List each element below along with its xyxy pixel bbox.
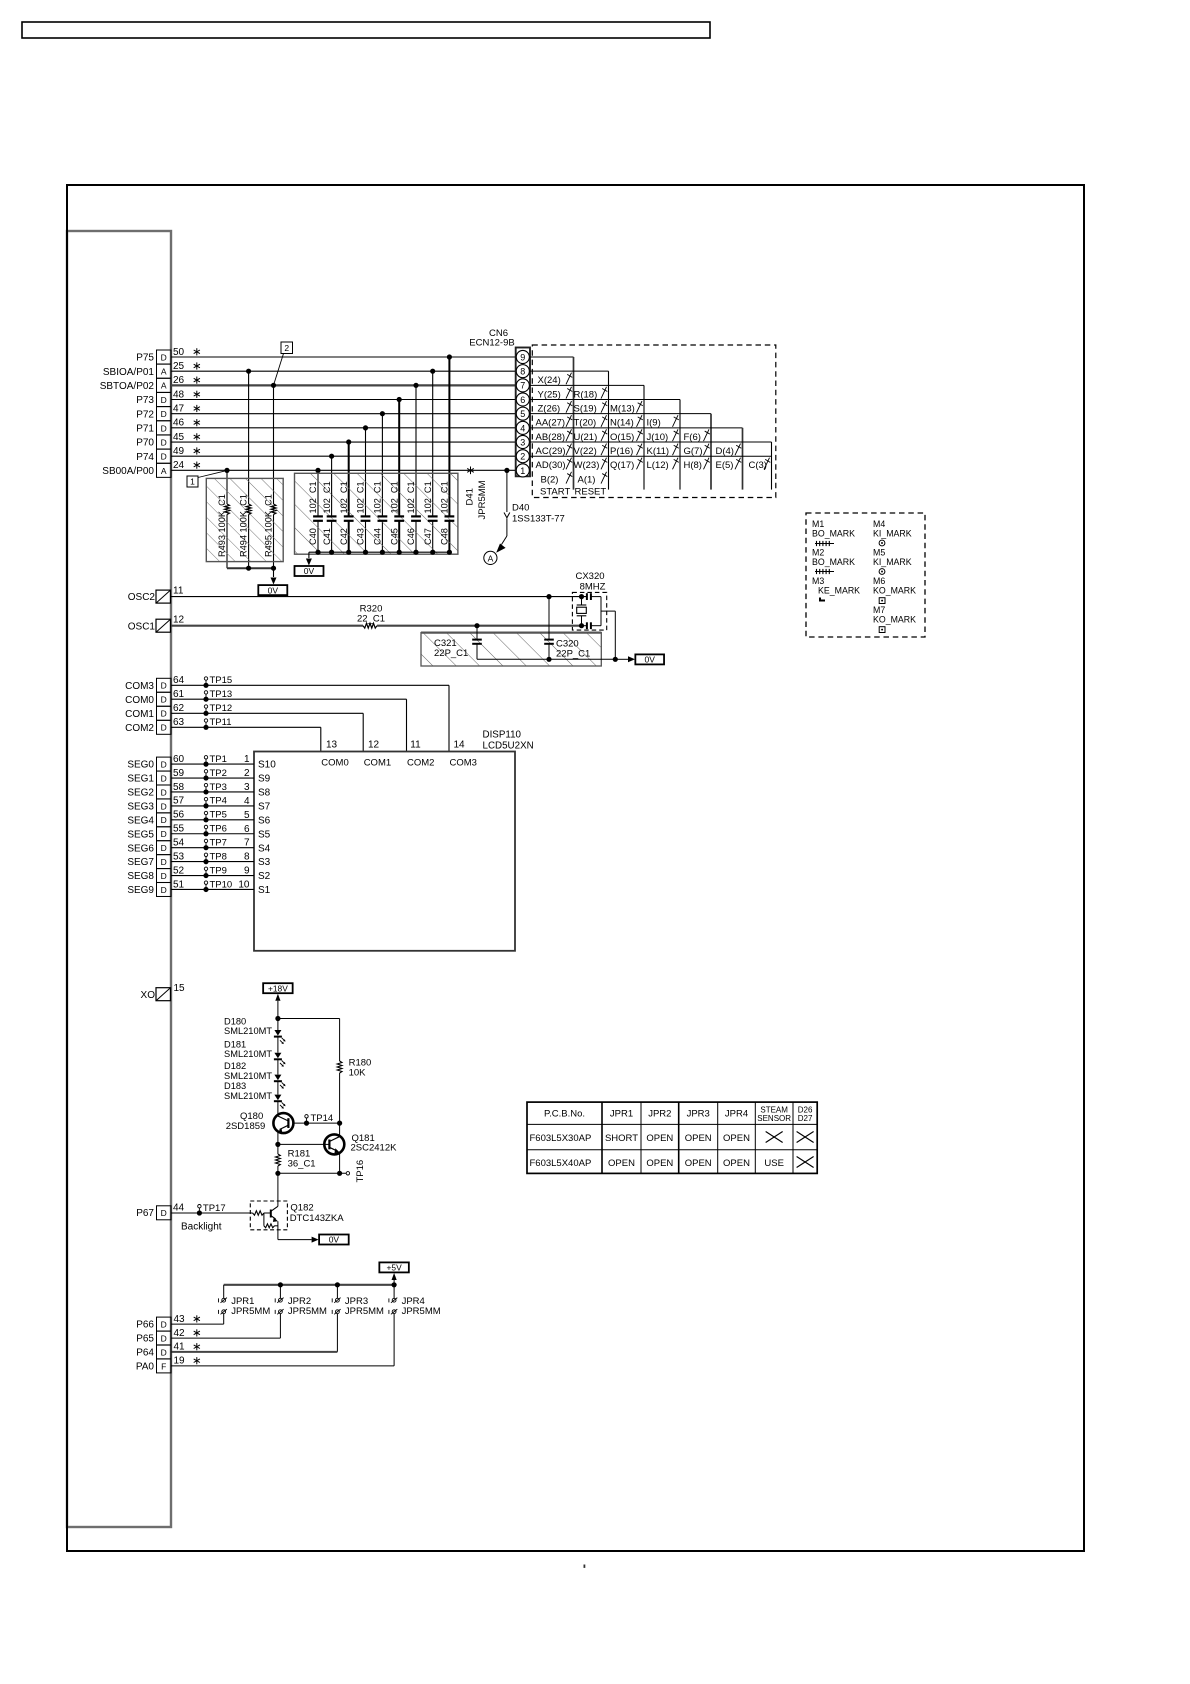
wire Q180 base to TP14	[293, 1122, 339, 1124]
svg-text:A: A	[488, 553, 494, 563]
svg-text:OPEN: OPEN	[646, 1158, 673, 1169]
svg-text:M3: M3	[812, 576, 824, 586]
svg-text:COM2: COM2	[125, 723, 154, 734]
svg-text:12: 12	[173, 615, 185, 626]
supply +5V	[379, 1262, 409, 1272]
node junction to CN6 pin1	[504, 468, 509, 473]
capacitor bank block C40-C48	[295, 473, 458, 554]
svg-text:OSC2: OSC2	[128, 592, 156, 603]
junction node on row P75 at x=449.4	[447, 354, 452, 359]
supply +18V	[263, 983, 293, 993]
svg-text:OPEN: OPEN	[685, 1133, 712, 1144]
svg-text:D: D	[161, 829, 167, 839]
svg-text:55: 55	[173, 824, 185, 835]
wire P74 row	[171, 455, 516, 457]
svg-text:R(18): R(18)	[574, 389, 598, 400]
svg-text:D: D	[161, 395, 167, 405]
svg-text:D180: D180	[224, 1017, 246, 1027]
svg-text:SEG2: SEG2	[127, 788, 154, 799]
resistor R180 10K	[337, 1061, 342, 1073]
svg-text:DTC143ZKA: DTC143ZKA	[290, 1213, 345, 1224]
svg-text:TP10: TP10	[210, 879, 233, 890]
svg-text:D: D	[161, 760, 167, 770]
svg-text:2: 2	[284, 343, 289, 353]
capacitor C43 102_C1	[361, 515, 371, 517]
test point TP7	[203, 845, 208, 850]
svg-text:D: D	[161, 815, 167, 825]
svg-text:SEG4: SEG4	[127, 815, 154, 826]
svg-text:BO_MARK: BO_MARK	[812, 529, 855, 539]
svg-text:D: D	[161, 423, 167, 433]
svg-text:SBIOA/P01: SBIOA/P01	[103, 367, 155, 378]
capacitor C46 102_C1	[411, 515, 421, 517]
svg-text:I(9): I(9)	[647, 418, 661, 429]
svg-text:U(21): U(21)	[574, 432, 598, 443]
svg-text:TP11: TP11	[210, 717, 232, 728]
CN6 pin 3	[516, 435, 529, 448]
svg-text:TP8: TP8	[210, 851, 227, 862]
svg-text:7: 7	[244, 838, 250, 849]
svg-text:TP14: TP14	[311, 1113, 334, 1124]
svg-text:D: D	[161, 773, 167, 783]
svg-text:P(16): P(16)	[610, 446, 633, 457]
wire SEG6 to LCD	[171, 847, 254, 849]
svg-text:TP2: TP2	[210, 768, 227, 779]
svg-text:D: D	[161, 857, 167, 867]
test point TP16	[346, 1172, 349, 1175]
wire matrix column 1	[573, 357, 575, 490]
svg-text:51: 51	[173, 879, 185, 890]
wire capacitor drop	[381, 414, 383, 517]
svg-text:AD(30): AD(30)	[536, 460, 566, 471]
svg-text:102_C1: 102_C1	[322, 481, 332, 513]
svg-text:52: 52	[173, 865, 185, 876]
svg-text:C40: C40	[308, 528, 318, 545]
svg-text:56: 56	[173, 810, 185, 821]
svg-text:D40: D40	[512, 503, 529, 514]
jumper JPR4 JPR5MM	[393, 1285, 395, 1298]
wire CN6 pin 9 to matrix column	[530, 356, 574, 358]
svg-text:45: 45	[173, 432, 185, 443]
svg-text:D: D	[161, 452, 167, 462]
svg-text:OPEN: OPEN	[608, 1158, 635, 1169]
svg-text:G(7): G(7)	[684, 446, 703, 457]
svg-text:JPR5MM: JPR5MM	[231, 1306, 270, 1317]
wire to 0V (resistor network)	[273, 568, 275, 577]
svg-text:OPEN: OPEN	[723, 1158, 750, 1169]
capacitor top of crystal	[586, 593, 588, 600]
svg-text:0V: 0V	[304, 566, 315, 576]
svg-text:USE: USE	[764, 1158, 784, 1169]
svg-text:42: 42	[174, 1328, 186, 1339]
junction node on row P74 at x=331.6	[329, 454, 334, 459]
resistor network block R493-R495	[206, 478, 283, 561]
transistor Q180 2SD1859	[273, 1113, 293, 1133]
svg-text:S2: S2	[258, 871, 271, 882]
svg-text:D181: D181	[224, 1039, 246, 1049]
svg-text:H(8): H(8)	[684, 460, 702, 471]
svg-text:D27: D27	[798, 1114, 813, 1123]
capacitor bottom of crystal	[586, 622, 588, 629]
junction node on row P72 at x=382.4	[380, 411, 385, 416]
wire CN6 pin 8 to matrix column	[530, 370, 609, 372]
wire capacitor drop	[415, 385, 417, 516]
svg-text:22P_C1: 22P_C1	[556, 649, 590, 660]
svg-text:M5: M5	[873, 548, 885, 558]
svg-text:TP7: TP7	[210, 837, 227, 848]
svg-text:10K: 10K	[349, 1068, 367, 1079]
svg-text:C46: C46	[406, 528, 416, 545]
wire P67 row	[171, 1212, 253, 1214]
svg-text:43: 43	[174, 1314, 186, 1325]
svg-text:3: 3	[244, 782, 250, 793]
svg-text:9: 9	[520, 352, 525, 362]
wire SEG0 to LCD	[171, 763, 254, 765]
test point TP14	[304, 1121, 309, 1126]
jumper JPR3 JPR5MM	[336, 1285, 338, 1298]
svg-text:D: D	[161, 437, 167, 447]
svg-text:M6: M6	[873, 576, 885, 586]
svg-text:102_C1: 102_C1	[389, 481, 399, 513]
junction node on row SB00A/P00 at x=227	[224, 468, 229, 473]
svg-text:2SC2412K: 2SC2412K	[351, 1143, 398, 1154]
callout 1	[187, 476, 198, 487]
svg-text:KO_MARK: KO_MARK	[873, 615, 916, 625]
callout 2	[281, 342, 293, 354]
svg-text:P.C.B.No.: P.C.B.No.	[544, 1109, 585, 1120]
svg-text:D: D	[161, 352, 167, 362]
svg-text:2SD1859: 2SD1859	[226, 1121, 266, 1132]
svg-text:24: 24	[173, 460, 185, 471]
capacitor C44 102_C1	[378, 515, 388, 517]
svg-text:M(13): M(13)	[610, 403, 635, 414]
svg-text:N(14): N(14)	[610, 418, 634, 429]
svg-text:SEG8: SEG8	[127, 871, 154, 882]
svg-text:TP1: TP1	[210, 754, 227, 765]
svg-text:LCD5U2XN: LCD5U2XN	[483, 741, 534, 752]
svg-text:P72: P72	[136, 409, 154, 420]
wire OSC1 row (bold)	[171, 625, 363, 627]
svg-text:2: 2	[244, 768, 250, 779]
svg-text:8: 8	[244, 852, 250, 863]
svg-text:COM3: COM3	[125, 681, 154, 692]
test point TP9	[203, 873, 208, 878]
svg-text:12: 12	[368, 740, 380, 751]
wire capacitor drop	[432, 371, 434, 516]
svg-text:F603L5X30AP: F603L5X30AP	[530, 1133, 592, 1144]
CN6 pin 4	[516, 421, 529, 434]
svg-text:COM0: COM0	[321, 758, 348, 769]
test point TP15	[203, 683, 208, 688]
svg-text:P67: P67	[136, 1208, 154, 1219]
wire COM0 to LCD	[171, 698, 407, 700]
CN6 pin 1	[516, 464, 529, 477]
svg-text:SENSOR: SENSOR	[757, 1114, 791, 1123]
svg-text:PA0: PA0	[136, 1362, 155, 1373]
wire OSC2 row	[171, 596, 587, 598]
svg-text:1: 1	[190, 477, 195, 487]
svg-text:S9: S9	[258, 774, 271, 785]
svg-text:102_C1: 102_C1	[308, 481, 318, 513]
svg-text:OPEN: OPEN	[685, 1158, 712, 1169]
junction node on row SBTOA/P02 at x=273.5	[271, 383, 276, 388]
svg-text:TP3: TP3	[210, 782, 227, 793]
svg-text:JPR3: JPR3	[687, 1109, 710, 1120]
svg-text:COM3: COM3	[450, 758, 477, 769]
diode D40 1SS133T-77	[506, 470, 508, 512]
svg-text:F603L5X40AP: F603L5X40AP	[530, 1158, 592, 1169]
svg-text:R493 100K_C1: R493 100K_C1	[217, 494, 227, 557]
svg-text:58: 58	[173, 782, 185, 793]
svg-text:SBTOA/P02: SBTOA/P02	[100, 381, 155, 392]
svg-text:TP9: TP9	[210, 865, 227, 876]
CN6 pin 9	[516, 350, 529, 363]
svg-text:M7: M7	[873, 605, 885, 615]
svg-text:D: D	[161, 709, 167, 719]
svg-text:D: D	[161, 787, 167, 797]
test point TP5	[203, 817, 208, 822]
LED D181 SML210MT	[277, 1037, 279, 1053]
svg-text:7: 7	[520, 381, 525, 391]
svg-text:P74: P74	[136, 452, 154, 463]
svg-text:S10: S10	[258, 760, 276, 771]
svg-text:E(5): E(5)	[716, 460, 734, 471]
jumper JPR1 JPR5MM	[223, 1285, 225, 1298]
resistor R493 100K_C1	[225, 504, 230, 515]
svg-text:B(2): B(2)	[541, 474, 559, 485]
wire CN6 pin 5 to matrix column	[530, 413, 711, 415]
svg-text:C48: C48	[440, 528, 450, 545]
svg-text:C45: C45	[389, 528, 399, 545]
svg-text:0V: 0V	[644, 655, 655, 665]
svg-text:SEG6: SEG6	[127, 843, 154, 854]
LED D183 SML210MT	[277, 1081, 279, 1094]
svg-text:JPR2: JPR2	[648, 1109, 671, 1120]
svg-text:AC(29): AC(29)	[536, 446, 566, 457]
svg-text:JPR4: JPR4	[725, 1109, 748, 1120]
svg-text:SEG0: SEG0	[127, 760, 154, 771]
svg-text:2: 2	[520, 452, 525, 462]
svg-text:P65: P65	[136, 1334, 154, 1345]
svg-text:102_C1: 102_C1	[373, 481, 383, 513]
svg-text:S3: S3	[258, 857, 271, 868]
capacitor C41 102_C1	[327, 515, 337, 517]
LED D180 SML210MT	[277, 1019, 279, 1031]
svg-text:P66: P66	[136, 1320, 154, 1331]
wire P72 row	[171, 413, 516, 415]
test point TP4	[203, 803, 208, 808]
junction node on row SBTOA/P02 at x=416	[413, 383, 418, 388]
svg-text:S5: S5	[258, 829, 271, 840]
svg-text:ECN12-9B: ECN12-9B	[469, 338, 514, 349]
wire Q182 emitter to 0V	[278, 1239, 312, 1241]
wire +5V bus	[224, 1284, 394, 1286]
svg-text:TP17: TP17	[203, 1203, 226, 1214]
svg-text:22_C1: 22_C1	[357, 614, 385, 625]
wire JPR2 to pin row	[279, 1314, 281, 1338]
wire CN6 pin 7 to matrix column	[530, 384, 644, 386]
svg-text:47: 47	[173, 403, 185, 414]
page mark	[584, 1565, 586, 1568]
transistor Q182 DTC143ZKA (dashed)	[250, 1201, 287, 1230]
svg-text:Z(26): Z(26)	[538, 403, 561, 414]
svg-text:BO_MARK: BO_MARK	[812, 557, 855, 567]
svg-text:C41: C41	[322, 528, 332, 545]
jumper configuration table	[527, 1102, 817, 1173]
wire capacitor drop	[317, 470, 319, 516]
svg-text:36_C1: 36_C1	[288, 1159, 316, 1170]
svg-text:C44: C44	[373, 528, 383, 545]
svg-text:S(19): S(19)	[574, 403, 597, 414]
test point TP1	[203, 762, 208, 767]
svg-text:P71: P71	[136, 423, 154, 434]
wire capacitor drop	[398, 400, 400, 517]
svg-text:D183: D183	[224, 1081, 246, 1091]
svg-text:C(3): C(3)	[749, 460, 767, 471]
svg-text:P73: P73	[136, 395, 154, 406]
wire JPR1 to pin row	[223, 1314, 225, 1324]
svg-text:TP13: TP13	[210, 689, 233, 700]
CN6 pin 2	[516, 450, 529, 463]
junction node on row SB00A/P00 at x=318	[315, 468, 320, 473]
wire P75 row	[171, 356, 516, 358]
svg-text:102_C1: 102_C1	[423, 481, 433, 513]
wire matrix column 7	[771, 442, 773, 490]
wire SBTOA/P02 row	[171, 384, 516, 386]
wire capacitor ground bus	[309, 551, 450, 553]
svg-text:19: 19	[174, 1356, 186, 1367]
CN6 pin 6	[516, 393, 529, 406]
wire P73 row	[171, 399, 516, 401]
svg-text:22P_C1: 22P_C1	[434, 648, 468, 659]
svg-text:R494 100K_C1: R494 100K_C1	[238, 494, 248, 557]
wire CN6 pin 3 to matrix column	[530, 441, 772, 443]
svg-text:OPEN: OPEN	[646, 1133, 673, 1144]
svg-text:46: 46	[173, 418, 185, 429]
svg-text:JPR5MM: JPR5MM	[477, 480, 488, 519]
wire SEG7 to LCD	[171, 861, 254, 863]
svg-text:A: A	[161, 367, 167, 377]
svg-text:SML210MT: SML210MT	[224, 1049, 272, 1059]
svg-text:SEG1: SEG1	[127, 774, 154, 785]
svg-text:14: 14	[453, 740, 465, 751]
svg-text:TP4: TP4	[210, 796, 227, 807]
crystal element	[581, 597, 583, 606]
svg-text:9: 9	[244, 866, 250, 877]
svg-text:M4: M4	[873, 519, 885, 529]
load capacitor block (hatched)	[421, 633, 601, 666]
svg-text:D: D	[161, 723, 167, 733]
svg-text:D: D	[161, 1347, 167, 1357]
svg-text:KO_MARK: KO_MARK	[873, 586, 916, 596]
svg-text:C43: C43	[356, 528, 366, 545]
svg-text:S6: S6	[258, 815, 271, 826]
svg-text:3: 3	[520, 437, 525, 447]
svg-text:+5V: +5V	[387, 1263, 403, 1273]
svg-text:A: A	[161, 381, 167, 391]
junction node on row SBIOA/P01 at x=248.6	[246, 369, 251, 374]
wire SEG9 to LCD	[171, 888, 254, 890]
wire CN6 pin 6 to matrix column	[530, 399, 680, 401]
svg-text:S1: S1	[258, 885, 271, 896]
svg-text:1: 1	[520, 466, 525, 476]
svg-text:RESET: RESET	[575, 487, 607, 498]
ground 0V (capacitor bank)	[295, 566, 324, 576]
svg-text:48: 48	[173, 389, 185, 400]
svg-text:50: 50	[173, 347, 185, 358]
junction node on row SBIOA/P01 at x=432.7	[430, 369, 435, 374]
wire capacitor drop	[348, 442, 350, 516]
resistor R320 22_C1	[363, 623, 377, 628]
svg-text:DISP110: DISP110	[483, 730, 522, 741]
svg-text:60: 60	[173, 754, 185, 765]
svg-text:COM2: COM2	[407, 758, 434, 769]
wire capacitor drop	[331, 456, 333, 516]
svg-text:TP12: TP12	[210, 703, 233, 714]
junction node on row P70 at x=348.7	[346, 439, 351, 444]
svg-text:COM1: COM1	[364, 758, 391, 769]
wire SEG5 to LCD	[171, 833, 254, 835]
resistor R181 36_C1	[277, 1144, 279, 1154]
wire resistor drop	[226, 470, 228, 504]
svg-text:SEG9: SEG9	[127, 885, 154, 896]
svg-text:D: D	[161, 1208, 167, 1218]
svg-text:0V: 0V	[268, 585, 279, 595]
wire JPR3 to pin row	[336, 1314, 338, 1352]
svg-text:V(22): V(22)	[574, 446, 597, 457]
capacitor C42 102_C1	[344, 515, 354, 517]
svg-text:SEG7: SEG7	[127, 857, 154, 868]
main schematic border	[67, 185, 1084, 1551]
svg-text:R495 100K_C1: R495 100K_C1	[263, 494, 273, 557]
capacitor C321 22P_C1	[474, 623, 479, 628]
svg-text:COM0: COM0	[125, 695, 154, 706]
wire crystal ground bus	[477, 658, 615, 660]
svg-text:6: 6	[244, 824, 250, 835]
svg-text:15: 15	[174, 983, 186, 994]
wire resistor drop	[273, 385, 275, 504]
test point TP8	[203, 859, 208, 864]
svg-text:KE_MARK: KE_MARK	[818, 586, 860, 596]
svg-text:62: 62	[173, 703, 185, 714]
test point TP13	[203, 697, 208, 702]
wire resistor-bottom join	[227, 567, 274, 569]
junction node on row P73 at x=399.2	[397, 397, 402, 402]
wire JPR4 to pin row	[393, 1314, 395, 1366]
svg-text:TP15: TP15	[210, 675, 233, 686]
capacitor C45 102_C1	[394, 515, 404, 517]
svg-text:TP5: TP5	[210, 810, 227, 821]
wire crystal right side	[600, 597, 602, 626]
transistor Q181 2SC2412K	[275, 1142, 280, 1147]
title bar frame	[22, 22, 710, 38]
svg-text:F: F	[161, 1361, 166, 1371]
svg-text:11: 11	[410, 740, 421, 751]
svg-text:57: 57	[173, 796, 185, 807]
svg-text:D: D	[161, 871, 167, 881]
LED D182 SML210MT	[277, 1059, 279, 1074]
svg-text:10: 10	[238, 879, 250, 890]
svg-text:P70: P70	[136, 438, 154, 449]
svg-text:0V: 0V	[329, 1235, 340, 1245]
wire P71 row	[171, 427, 516, 429]
wire SEG4 to LCD	[171, 819, 254, 821]
svg-text:JPR5MM: JPR5MM	[402, 1306, 441, 1317]
svg-text:JPR5MM: JPR5MM	[288, 1306, 327, 1317]
svg-text:8MHZ: 8MHZ	[580, 582, 606, 593]
resistor R495 100K_C1	[271, 504, 276, 515]
svg-text:SHORT: SHORT	[605, 1133, 638, 1144]
